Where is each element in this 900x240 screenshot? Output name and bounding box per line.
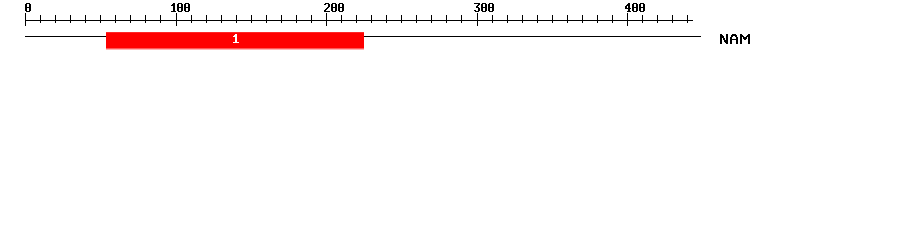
background — [0, 0, 900, 58]
sequence name NAM: letter M — [740, 34, 750, 44]
ruler label 200 — [324, 3, 344, 12]
ruler axis line — [25, 20, 693, 21]
ruler label 300 — [474, 3, 494, 12]
feature label 1 (white) — [233, 34, 239, 43]
ruler label 0 — [25, 3, 31, 12]
ruler major ticks — [25, 13, 628, 26]
ruler minor ticks — [40, 15, 688, 23]
sequence name NAM: letter N — [720, 34, 728, 44]
sequence name NAM: letter A — [730, 34, 738, 44]
sequence line — [25, 36, 701, 37]
ruler label 100 — [171, 3, 190, 12]
ruler label 400 — [625, 3, 645, 12]
feature box 1 (red) — [106, 32, 364, 33]
